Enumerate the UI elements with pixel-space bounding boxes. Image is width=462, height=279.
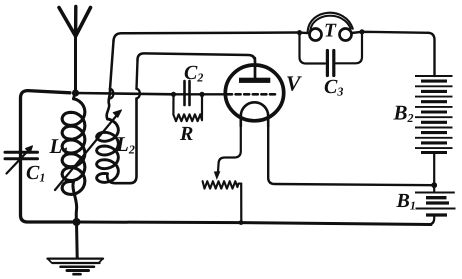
svg-text:L2: L2	[115, 132, 135, 157]
svg-text:T: T	[324, 21, 337, 42]
svg-text:C2: C2	[184, 62, 203, 85]
svg-text:C1: C1	[26, 162, 45, 185]
svg-text:B1: B1	[396, 190, 416, 213]
svg-text:V: V	[286, 72, 302, 96]
svg-text:B2: B2	[393, 101, 414, 126]
svg-text:R: R	[179, 123, 193, 145]
svg-text:C3: C3	[324, 76, 343, 99]
